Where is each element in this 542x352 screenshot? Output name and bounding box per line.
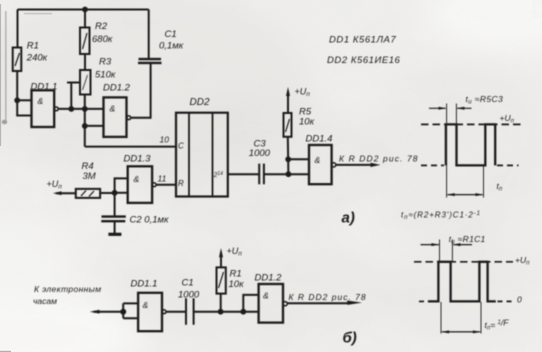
- resistor R3: [80, 70, 91, 95]
- wire C2 to ground: [114, 221, 116, 233]
- IC DD2 divider 2: [212, 113, 214, 197]
- svg-text:DD1.2: DD1.2: [255, 273, 283, 284]
- waveform b high dashed: [414, 261, 513, 263]
- svg-text:C1: C1: [182, 278, 194, 289]
- svg-text:10к: 10к: [299, 117, 315, 128]
- svg-text:10к: 10к: [229, 279, 245, 290]
- scan edge artifact left: [0, 4, 1, 146]
- wire to clock arrow: [94, 311, 124, 313]
- svg-text:часам: часам: [33, 296, 57, 306]
- resistor R5: [284, 113, 292, 137]
- svg-text:К R DD2 рис. 78: К R DD2 рис. 78: [339, 154, 419, 164]
- node DD1.2b tie: [240, 309, 246, 315]
- wire +Up arrow to R4: [56, 192, 76, 194]
- svg-text:10: 10: [160, 135, 170, 145]
- wire DD2 output: [228, 173, 259, 175]
- gate DD1.3: [128, 166, 152, 203]
- svg-text:С2 0,1мк: С2 0,1мк: [130, 215, 170, 226]
- wire faint left feedback: [5, 11, 7, 120]
- dim tp b arrows: [442, 331, 480, 333]
- wire DD1.3 output to DD2 pin 11: [156, 184, 176, 186]
- IC DD2: [176, 113, 228, 197]
- svg-text:1000: 1000: [249, 148, 271, 159]
- svg-text:DD1.2: DD1.2: [103, 83, 131, 94]
- wire DD1.1 output: [58, 108, 103, 110]
- svg-text:R3: R3: [99, 57, 112, 68]
- capacitor C2: [101, 217, 126, 222]
- svg-text:DD1.4: DD1.4: [306, 134, 333, 145]
- wire R2 top: [84, 10, 86, 28]
- wire tap to R3: [67, 83, 80, 109]
- wire DD1.1 lower input: [17, 100, 31, 115]
- waveform a low dashed right: [497, 164, 519, 166]
- wire DD1.3 lower input: [115, 192, 128, 194]
- capacitor C1: [138, 59, 162, 63]
- wire DD1.2b output arrow: [287, 302, 348, 304]
- wire top rail: [18, 9, 149, 11]
- resistor R1b: [217, 267, 226, 293]
- gate DD1.4 output bubble: [332, 163, 336, 167]
- waveform b low dashed right: [498, 300, 514, 302]
- wire C1 top: [148, 10, 150, 60]
- waveform a low dashed left: [421, 164, 444, 166]
- wire node to C2: [114, 193, 116, 217]
- svg-text:&: &: [110, 104, 116, 114]
- power +Up arrow b: [220, 254, 222, 267]
- svg-text:К R DD2 рис. 78: К R DD2 рис. 78: [289, 292, 367, 302]
- node A: [68, 106, 74, 112]
- node DD1.1 input: [14, 97, 20, 103]
- gate DD1.2b: [259, 284, 283, 323]
- dim tp arrows: [448, 194, 483, 196]
- svg-text:0,1мк: 0,1мк: [159, 41, 184, 52]
- node R4/DD1.3: [112, 190, 118, 196]
- svg-text:1000: 1000: [178, 290, 200, 301]
- svg-text:R1: R1: [27, 41, 39, 52]
- wire DD1.4 output arrow: [336, 164, 372, 166]
- node top rail junction: [82, 7, 88, 13]
- svg-text:DD1.3: DD1.3: [124, 154, 152, 165]
- svg-text:&: &: [263, 291, 269, 301]
- dim tu arrows: [429, 107, 472, 109]
- svg-text:C: C: [178, 142, 184, 151]
- svg-text:DD2: DD2: [190, 97, 210, 108]
- node DD1.2 lower input: [82, 123, 88, 129]
- node R1b: [218, 309, 224, 315]
- node C3/R5: [286, 171, 292, 177]
- svg-text:а): а): [342, 210, 355, 227]
- wire R4 to node: [100, 192, 115, 194]
- wire DD1.2 output to C1: [131, 63, 151, 117]
- gate DD1.3 output bubble: [152, 183, 156, 187]
- dim tu b arrows: [421, 244, 473, 246]
- svg-text:&: &: [315, 155, 321, 165]
- waveform a high dashed: [421, 123, 521, 125]
- gate DD1.2b output bubble: [283, 302, 287, 306]
- svg-text:R: R: [178, 179, 184, 188]
- ground: [108, 233, 121, 236]
- gate DD1.1b: [138, 293, 162, 331]
- wire DD1.4 upper input: [288, 158, 309, 160]
- svg-text:0: 0: [517, 295, 522, 305]
- wire DD1.2 lower input: [85, 125, 104, 127]
- gate DD1.2: [104, 97, 127, 136]
- svg-text:tи ≈R1C1: tи ≈R1C1: [449, 234, 486, 246]
- wire R1b bottom: [220, 294, 222, 312]
- gate DD1.2 output bubble: [127, 116, 131, 120]
- node b input: [120, 309, 126, 315]
- power +Up arrow: [287, 93, 289, 113]
- gate DD1.4: [309, 145, 332, 184]
- IC DD2 divider 1: [188, 113, 190, 197]
- node R5/DD1.4: [285, 156, 291, 162]
- svg-text:R2: R2: [95, 21, 108, 32]
- scan edge artifact bottom-left: [0, 351, 11, 352]
- svg-text:R1: R1: [230, 269, 242, 280]
- gate DD1.1 output bubble: [54, 107, 58, 111]
- svg-text:11: 11: [158, 174, 167, 184]
- wire DD1.1b input tie: [123, 303, 138, 318]
- wire to DD2 pin 10: [85, 146, 176, 148]
- wire DD1.3 upper input: [115, 178, 128, 192]
- svg-text:3М: 3М: [83, 171, 96, 182]
- wire C3 to DD1.4: [264, 173, 309, 175]
- waveform a pulses: [446, 124, 495, 165]
- wire DD1.1b output: [166, 311, 186, 313]
- wire C1b to DD1.2b: [194, 311, 259, 313]
- wire shadow artifact: [24, 13, 52, 15]
- gate DD1.1b output bubble: [162, 310, 166, 314]
- resistor R4: [76, 189, 100, 198]
- waveform b low dashed left: [419, 300, 426, 302]
- svg-text:tи ≈R5C3: tи ≈R5C3: [466, 94, 504, 106]
- svg-text:&: &: [143, 300, 149, 310]
- svg-text:б): б): [343, 330, 357, 347]
- wire DD1.1 upper input: [17, 99, 31, 101]
- scan smudge top-right: [536, 3, 542, 13]
- svg-text:510к: 510к: [95, 70, 116, 81]
- svg-text:240к: 240к: [26, 53, 48, 64]
- svg-text:680к: 680к: [92, 34, 113, 45]
- svg-text:DD1.1: DD1.1: [131, 279, 158, 290]
- dim tu b extension lines: [440, 240, 453, 263]
- capacitor C1b: [186, 298, 194, 324]
- gate DD1.1: [32, 90, 55, 127]
- wire top-left corner down to R1: [17, 10, 19, 48]
- dim tp b extension lines: [441, 302, 481, 334]
- svg-text:&: &: [38, 96, 44, 106]
- dim tu extension lines: [447, 104, 484, 198]
- wire R1 bottom: [16, 71, 18, 100]
- waveform b pulses: [428, 262, 496, 302]
- wire DD1.2b upper input: [243, 295, 258, 312]
- node B: [82, 106, 88, 112]
- svg-text:tп≈(R2+R3')C1·2-1: tп≈(R2+R3')C1·2-1: [401, 211, 481, 222]
- capacitor C3: [259, 164, 264, 185]
- svg-text:&: &: [134, 174, 140, 184]
- resistor R1: [13, 48, 22, 72]
- resistor R2: [80, 28, 90, 55]
- wire R5 bottom: [287, 137, 290, 174]
- svg-text:DD1.1: DD1.1: [31, 82, 58, 93]
- svg-text:C1: C1: [165, 29, 177, 40]
- wire R2-R3: [84, 54, 86, 70]
- svg-text:DD2 К561ИЕ16: DD2 К561ИЕ16: [327, 55, 401, 66]
- svg-text:К электронным: К электронным: [34, 284, 101, 294]
- svg-text:DD1 К561ЛА7: DD1 К561ЛА7: [329, 35, 396, 46]
- wire R3 bottom down: [84, 95, 86, 147]
